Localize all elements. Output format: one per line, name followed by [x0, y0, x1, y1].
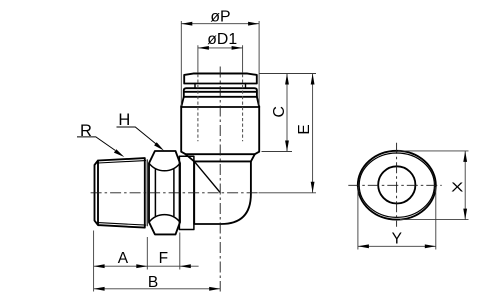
arrow E top — [311, 74, 315, 85]
dimension line P — [181, 23, 259, 25]
svg-text:øD1: øD1 — [207, 31, 237, 48]
elbow surface intersection diagonal — [195, 162, 220, 193]
extension lines for A and B left — [93, 231, 95, 292]
arrow F right outside — [180, 264, 191, 268]
dimension line X — [464, 151, 466, 220]
centerline horizontal axis — [91, 192, 258, 194]
svg-text:X: X — [451, 181, 464, 195]
hex nut chamfer arcs — [149, 163, 180, 222]
svg-text:B: B — [148, 274, 158, 291]
arrow X top — [463, 151, 467, 162]
side view horizontal centerline — [348, 184, 441, 186]
body of vertical port — [181, 106, 259, 154]
side view inner ring ellipse — [359, 153, 434, 217]
arrow A left — [94, 264, 105, 268]
cap neck — [195, 84, 246, 89]
arrow D1 left — [198, 46, 209, 50]
extension line A right — [146, 237, 148, 270]
svg-text:F: F — [159, 250, 168, 267]
arrow A right — [136, 264, 147, 268]
arrow B left — [94, 287, 105, 291]
arrow X bottom — [463, 209, 467, 220]
hidden line bore left — [197, 74, 199, 141]
leader R arrowhead — [114, 149, 124, 157]
hex nut H outline — [149, 151, 180, 234]
extension line cap top right — [260, 73, 317, 75]
leader H arrowhead — [154, 142, 164, 150]
leader H — [117, 127, 156, 144]
thread crest/root inner lines — [98, 160, 147, 226]
dimension line E — [312, 74, 314, 193]
arrow B right — [209, 287, 220, 291]
svg-text:A: A — [118, 250, 129, 267]
arrow P left — [181, 22, 192, 26]
ring-to-body transition cone — [181, 97, 259, 107]
collet ring — [184, 88, 257, 97]
extension line F right — [179, 233, 181, 270]
centerline vertical axis — [219, 67, 221, 292]
washer flange — [179, 156, 194, 229]
extension lines for dimension D1 — [198, 45, 243, 73]
extension line body bottom right — [262, 151, 293, 153]
dimension line C — [286, 74, 288, 152]
svg-text:øP: øP — [210, 9, 230, 26]
arrow C bottom — [285, 141, 289, 152]
side view bore circle — [378, 166, 415, 203]
leader R — [77, 137, 115, 151]
cap top face line — [194, 72, 247, 74]
arrow C top — [285, 74, 289, 85]
side view vertical centerline — [396, 143, 398, 227]
thread R male connector outline — [95, 158, 145, 228]
dimension line D1 — [198, 47, 243, 49]
arrow E bottom — [311, 182, 315, 193]
arrow Y left — [358, 244, 369, 248]
svg-text:Y: Y — [392, 231, 402, 248]
extension lines for dimension P — [181, 21, 259, 106]
extension lines for X — [398, 151, 469, 220]
side view outer ellipse — [358, 151, 436, 220]
hidden line bore right — [242, 74, 244, 141]
body-to-elbow cone — [186, 154, 255, 161]
elbow block — [194, 161, 251, 224]
arrow P right — [248, 22, 259, 26]
extension lines for Y — [358, 187, 436, 250]
hex nut face divider lines — [155, 170, 174, 217]
dimension line Y — [358, 245, 436, 247]
dimension line A F — [94, 265, 199, 267]
svg-text:H: H — [118, 111, 130, 129]
dimension line B — [94, 288, 221, 290]
extension line side axis right — [259, 192, 317, 194]
arrow D1 right — [232, 46, 243, 50]
release cap outline — [184, 73, 257, 83]
arrow Y right — [425, 244, 436, 248]
svg-text:C: C — [271, 106, 288, 117]
svg-text:E: E — [296, 124, 313, 134]
